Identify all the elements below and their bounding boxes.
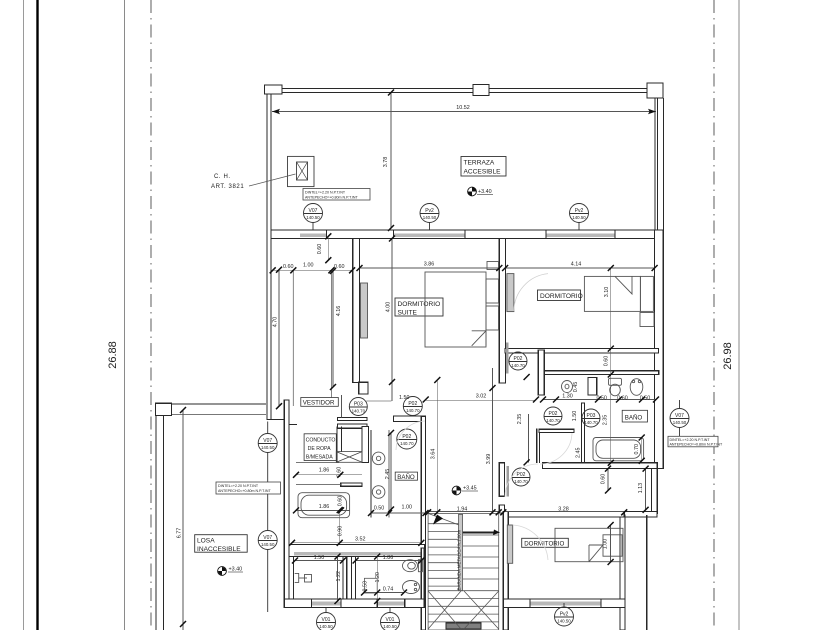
- vanity wall line: [370, 430, 372, 518]
- svg-text:V07: V07: [309, 208, 318, 214]
- dim 0.53 0.74 wc2: [364, 592, 404, 594]
- losa corner box: [156, 403, 172, 415]
- label DORMITORIO bottom: [522, 538, 569, 547]
- svg-text:C. H.: C. H.: [214, 174, 231, 180]
- svg-text:0.60: 0.60: [604, 356, 610, 367]
- svg-text:4.14: 4.14: [571, 262, 582, 268]
- toilet bath R: [609, 378, 622, 396]
- svg-text:140.50: 140.50: [673, 420, 687, 425]
- svg-text:+3.45: +3.45: [463, 486, 477, 492]
- level marker +3.40 losa: [218, 567, 243, 576]
- label VESTIDOR: [301, 398, 339, 407]
- svg-text:140.70: 140.70: [352, 409, 366, 414]
- dim 1.22 v wc1: [337, 557, 339, 602]
- svg-text:BAÑO: BAÑO: [397, 474, 415, 481]
- dim 4.16 line: [332, 271, 334, 387]
- property line thin left: [23, 0, 25, 630]
- dim 1.13 v right: [645, 469, 647, 510]
- svg-text:VESTIDOR: VESTIDOR: [303, 399, 335, 406]
- svg-text:3.64: 3.64: [431, 449, 437, 460]
- bed dorm B: [555, 528, 623, 561]
- chute west wall: [336, 427, 338, 463]
- svg-text:0.53: 0.53: [362, 581, 368, 592]
- closet strip south wall: [538, 371, 658, 375]
- handrail dark: [463, 532, 494, 534]
- terrace south wall window left gray: [300, 234, 326, 238]
- terrace south wall window right gray: [546, 234, 615, 238]
- stairs: [428, 513, 500, 630]
- svg-text:140.50: 140.50: [261, 445, 275, 450]
- marker P02 hall: [544, 407, 562, 425]
- svg-text:INACCESIBLE: INACCESIBLE: [197, 546, 241, 553]
- dim 10.52 line: [272, 111, 656, 113]
- svg-text:140.50: 140.50: [306, 215, 320, 220]
- svg-text:B/MESADA: B/MESADA: [306, 455, 333, 461]
- svg-text:1.22: 1.22: [336, 571, 342, 582]
- wc top wall band: [289, 545, 424, 557]
- bath R tub side wall: [582, 403, 585, 465]
- dim 1.86 line lower: [296, 509, 350, 511]
- svg-text:0.60: 0.60: [283, 264, 294, 270]
- svg-text:140.50: 140.50: [423, 215, 437, 220]
- marker V01 wc2: [381, 608, 400, 630]
- dimension ticks: [180, 90, 659, 628]
- dim 6.77 line: [182, 410, 184, 630]
- leader line C.H.: [249, 174, 296, 186]
- dim 0.60 line dorm: [610, 349, 612, 375]
- svg-text:1.00: 1.00: [402, 505, 413, 511]
- door arc dormitorio right: [514, 274, 548, 312]
- marker P02 closet strip: [509, 352, 527, 370]
- wc partition 1: [343, 557, 347, 602]
- losa west wall: [155, 416, 157, 630]
- svg-text:Pv2: Pv2: [575, 208, 584, 214]
- svg-text:P02: P02: [549, 411, 558, 417]
- svg-text:0.70: 0.70: [634, 444, 640, 455]
- east eave line: [662, 98, 664, 230]
- door arc P02 hall: [540, 433, 572, 464]
- dim 0.70 v tub: [641, 438, 643, 461]
- west terrace wall: [266, 94, 268, 409]
- svg-text:0.90: 0.90: [338, 526, 344, 537]
- planter line 1: [292, 271, 294, 406]
- label BANO right: [622, 410, 647, 422]
- suite west wall jog: [359, 382, 368, 394]
- svg-text:DORMITORIO: DORMITORIO: [540, 293, 583, 300]
- dim 2.35 line bath R: [610, 375, 612, 463]
- marker P02 landing: [512, 468, 530, 486]
- shower tray wc2: [364, 578, 377, 593]
- svg-text:2.35: 2.35: [603, 415, 609, 426]
- svg-text:DE ROPA: DE ROPA: [308, 446, 332, 452]
- svg-text:10.52: 10.52: [456, 105, 470, 111]
- dim 0.86 line wc2: [356, 560, 422, 562]
- dim chain bath R: [543, 399, 656, 401]
- svg-text:3.99: 3.99: [486, 454, 492, 465]
- svg-text:140.70: 140.70: [584, 420, 598, 425]
- bathtub bath R: [593, 438, 644, 461]
- svg-text:0.45: 0.45: [573, 382, 579, 393]
- svg-text:1.00: 1.00: [303, 263, 314, 269]
- property line thick left: [36, 0, 38, 630]
- door arc dorm B: [513, 525, 548, 560]
- svg-text:3.52: 3.52: [355, 537, 366, 543]
- svg-text:ANTEPECHO=+0.80m N.P.T.INT: ANTEPECHO=+0.80m N.P.T.INT: [305, 196, 358, 200]
- svg-text:4.00: 4.00: [386, 302, 392, 313]
- marker V07 right: [670, 400, 689, 436]
- dim 1.94 line: [428, 511, 499, 513]
- level marker +3.40 terrace: [468, 187, 493, 196]
- svg-text:140.70: 140.70: [546, 418, 560, 423]
- door header line P03: [366, 400, 391, 402]
- svg-text:ART. 3821: ART. 3821: [211, 184, 244, 190]
- svg-text:0.74: 0.74: [383, 587, 394, 593]
- dim 3.28 line: [503, 511, 624, 513]
- svg-text:3.86: 3.86: [424, 262, 435, 268]
- svg-text:DINTEL=+2.20 N.P.T.INT: DINTEL=+2.20 N.P.T.INT: [305, 191, 346, 195]
- chute east wall: [362, 427, 368, 463]
- top wall corner box right: [647, 83, 663, 98]
- vanity sinks bath L: [372, 452, 385, 498]
- stairs up arrow: [433, 515, 443, 525]
- bidet bath R: [630, 379, 643, 396]
- dim 0.60 top vertical: [327, 236, 329, 260]
- top wall chimney box: [473, 85, 489, 96]
- svg-text:140.50: 140.50: [572, 215, 586, 220]
- svg-text:1.50: 1.50: [314, 555, 325, 561]
- svg-text:DINTEL=+2.20 N.P.T.INT: DINTEL=+2.20 N.P.T.INT: [218, 484, 259, 488]
- dim 2.45 line bath L: [390, 433, 392, 510]
- landing wall lower stub: [499, 505, 504, 513]
- marker V01 wc1: [317, 608, 336, 630]
- svg-text:1.30: 1.30: [562, 394, 573, 400]
- dormitorio south wall: [505, 349, 659, 353]
- marker P02 upper: [403, 397, 422, 416]
- svg-text:140.50: 140.50: [261, 542, 275, 547]
- door arc P02 bath left: [396, 421, 425, 450]
- dim 3.10 line: [610, 268, 612, 349]
- label box TERRAZA ACCESIBLE: [461, 157, 506, 177]
- svg-text:1.00: 1.00: [603, 539, 609, 550]
- axis dash-dot line right: [713, 0, 715, 630]
- dorm B eave line: [646, 515, 648, 630]
- door leaf closet strip gray: [506, 342, 508, 373]
- svg-text:BARANDA METALICA h:1.00m: BARANDA METALICA h:1.00m: [457, 529, 462, 590]
- svg-text:1.86: 1.86: [383, 555, 394, 561]
- chute top wall: [338, 424, 368, 428]
- svg-text:140.70: 140.70: [406, 408, 420, 413]
- svg-text:2.35: 2.35: [517, 414, 523, 425]
- east wall jog: [651, 469, 657, 514]
- dim 3.86 line: [360, 267, 500, 269]
- wall suite/dormitorio: [499, 239, 505, 384]
- label DORMITORIO right: [538, 290, 583, 301]
- svg-text:2.45: 2.45: [385, 469, 391, 480]
- svg-text:DINTEL=+2.20 N.P.T.INT: DINTEL=+2.20 N.P.T.INT: [670, 438, 711, 442]
- wc window gray 2: [377, 601, 405, 605]
- label LOSA INACCESIBLE: [195, 535, 248, 553]
- dintel info box left: [216, 482, 281, 494]
- dim 2.35 line hall: [528, 414, 530, 462]
- label DORMITORIO SUITE: [395, 298, 443, 317]
- svg-text:Pv2: Pv2: [560, 612, 569, 618]
- bath R west face line: [536, 429, 538, 463]
- marker Pv2 terrace right: [570, 204, 589, 231]
- dim 10.52 arrowheads: [272, 109, 656, 115]
- svg-text:1.86: 1.86: [319, 504, 330, 510]
- door leaf dormitorio right: [507, 274, 514, 312]
- label CONDUCTO DE ROPA B/MESADA: [304, 434, 336, 461]
- dim 4.14 line: [505, 267, 654, 269]
- stair south wall dark: [446, 623, 481, 629]
- svg-text:Pv2: Pv2: [425, 208, 434, 214]
- wc1 west inner face: [293, 557, 295, 599]
- vestidor east edge line: [341, 395, 343, 418]
- wc south wall: [284, 599, 424, 608]
- marker P02 bath left: [397, 429, 417, 449]
- dorm B north wall east piece: [624, 512, 657, 518]
- marker Pv2 dorm B: [555, 603, 574, 626]
- closet suite: [361, 283, 368, 338]
- svg-text:+3.40: +3.40: [229, 567, 243, 573]
- losa north wall: [171, 403, 266, 405]
- svg-text:TERRAZA: TERRAZA: [464, 160, 495, 167]
- bath R shower partition: [588, 378, 597, 396]
- wc partition 2: [352, 557, 356, 602]
- counter edge line: [296, 461, 339, 463]
- dim 1.50 line wc: [295, 560, 343, 562]
- svg-text:0.60: 0.60: [600, 474, 606, 485]
- dim 3.52 line: [292, 542, 421, 544]
- central hall west wall: [421, 417, 425, 630]
- door arc P02 landing: [505, 464, 538, 497]
- svg-text:+3.40: +3.40: [478, 189, 492, 195]
- dim 0.60 v right: [607, 469, 609, 491]
- landing wall: [499, 463, 504, 497]
- planter line 2: [330, 271, 332, 406]
- svg-text:3.10: 3.10: [604, 287, 610, 298]
- dim 3.78 line: [390, 93, 392, 228]
- svg-text:3.28: 3.28: [558, 506, 569, 512]
- svg-text:140.70: 140.70: [511, 363, 525, 368]
- svg-text:140.50: 140.50: [383, 624, 397, 629]
- svg-text:2.45: 2.45: [575, 448, 581, 459]
- level marker +3.45: [452, 486, 478, 495]
- axis dash-dot line left: [150, 0, 152, 630]
- small sink wc1: [295, 573, 312, 582]
- toilet wc2: [403, 560, 423, 572]
- marker Pv2 terrace left: [420, 204, 439, 231]
- window marker V07 terrace: [304, 204, 323, 231]
- door leaf landing gray: [506, 466, 509, 497]
- svg-text:0.50: 0.50: [374, 506, 385, 512]
- dim 3.64 line: [436, 380, 438, 512]
- svg-text:P03: P03: [587, 413, 596, 419]
- bath R south wall: [542, 463, 657, 469]
- svg-text:ANTEPECHO=+0.80m N.P.T.INT: ANTEPECHO=+0.80m N.P.T.INT: [218, 489, 271, 493]
- marker V07 left upper: [258, 422, 277, 531]
- dorm B east wall: [620, 515, 625, 630]
- svg-text:140.70: 140.70: [514, 479, 528, 484]
- svg-text:1.13: 1.13: [638, 483, 644, 494]
- dorm B west wall: [503, 512, 508, 630]
- marker P03 vestidor: [349, 398, 367, 416]
- door leaf dorm B: [507, 525, 512, 563]
- svg-text:140.70: 140.70: [400, 441, 414, 446]
- marker P03 bath R: [582, 409, 600, 427]
- svg-text:P03: P03: [354, 402, 363, 408]
- top wall double line: [264, 88, 663, 90]
- inner lot line left: [124, 0, 126, 630]
- svg-text:ACCESIBLE: ACCESIBLE: [464, 169, 502, 176]
- wc window gray 1: [311, 601, 341, 605]
- svg-text:140.50: 140.50: [319, 624, 333, 629]
- svg-text:V07: V07: [263, 438, 272, 444]
- bed suite: [425, 262, 499, 348]
- dim 3.99 line: [492, 368, 494, 512]
- chimney C.H. box: [288, 156, 315, 186]
- svg-text:4.16: 4.16: [336, 306, 342, 317]
- svg-text:6.77: 6.77: [177, 528, 183, 539]
- top wall corner box left: [265, 85, 283, 94]
- lot line right: [738, 0, 740, 630]
- dorm B north wall: [508, 512, 624, 518]
- svg-text:P02: P02: [408, 401, 417, 407]
- dim 4.70 line: [278, 270, 280, 407]
- svg-text:SUITE: SUITE: [398, 310, 418, 317]
- svg-text:CONDUCTO: CONDUCTO: [306, 438, 336, 444]
- svg-text:P02: P02: [517, 472, 526, 478]
- dim 3.02 line: [426, 399, 536, 401]
- bath R niche wall: [539, 429, 574, 432]
- vestidor west wall: [284, 400, 289, 601]
- svg-text:3.02: 3.02: [476, 393, 487, 399]
- dim 1.00 v bed: [610, 525, 612, 562]
- stair flight diagonals: [428, 513, 499, 629]
- dim chain 0.60 1.00 0.60: [273, 269, 352, 271]
- bathtub bath L: [298, 493, 350, 518]
- bath L mid wall: [341, 483, 362, 486]
- svg-text:26.88: 26.88: [107, 341, 119, 369]
- svg-text:0.60: 0.60: [317, 244, 323, 255]
- svg-text:V01: V01: [322, 617, 331, 623]
- svg-text:0.60: 0.60: [338, 496, 344, 507]
- dorm B south wall: [503, 599, 625, 608]
- dim 1.86 line upper: [296, 474, 362, 476]
- label BANO left: [395, 472, 417, 481]
- bidet wc2: [403, 581, 420, 594]
- svg-text:V07: V07: [675, 413, 684, 419]
- svg-text:ANTEPECHO=+0.80m N.P.T.INT: ANTEPECHO=+0.80m N.P.T.INT: [670, 443, 723, 447]
- sink bath R: [562, 381, 573, 393]
- svg-text:P02: P02: [402, 434, 411, 440]
- east terrace parapet: [654, 98, 656, 230]
- svg-text:LOSA: LOSA: [197, 538, 215, 545]
- marker V07 left lower: [258, 531, 277, 613]
- svg-text:P02: P02: [514, 356, 523, 362]
- dim 0.90 line: [339, 510, 341, 543]
- svg-text:V07: V07: [263, 535, 272, 541]
- bed dormitorio right: [584, 276, 654, 326]
- terrace south wall window mid gray: [394, 234, 466, 238]
- svg-text:BAÑO: BAÑO: [625, 414, 643, 421]
- dim 1.20 v wc2: [376, 557, 378, 602]
- svg-text:140.50: 140.50: [557, 619, 571, 624]
- dim 4.00 line: [391, 239, 393, 402]
- svg-text:4.70: 4.70: [273, 317, 279, 328]
- dintel info box terrace: [303, 189, 370, 201]
- svg-text:1.86: 1.86: [319, 468, 330, 474]
- east wall below terrace: [655, 230, 664, 469]
- vanity front edge: [388, 430, 390, 518]
- svg-text:V01: V01: [386, 617, 395, 623]
- dintel info box right: [668, 436, 723, 447]
- svg-text:1.20: 1.20: [375, 572, 381, 583]
- chute north wall upper band: [338, 418, 368, 421]
- dim 0.50 1.00 line: [371, 512, 426, 514]
- wc east wall: [421, 548, 424, 601]
- svg-text:3.78: 3.78: [383, 157, 389, 168]
- bath right west wall: [538, 350, 544, 395]
- suite west wall: [353, 239, 360, 383]
- west wall step to vestidor: [267, 408, 285, 419]
- terrace south wall band: [271, 230, 655, 239]
- vestidor south wall right piece: [394, 416, 426, 421]
- dorm B window gray: [530, 601, 601, 605]
- laundry chute hatch box: [336, 452, 362, 463]
- svg-text:1.50: 1.50: [572, 411, 578, 422]
- svg-text:DORMITORIO: DORMITORIO: [398, 301, 441, 308]
- west wall stub line: [289, 424, 297, 426]
- svg-text:26.98: 26.98: [722, 342, 734, 370]
